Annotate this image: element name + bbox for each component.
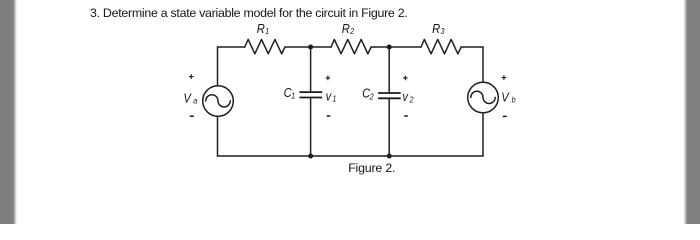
wire C2 branch upper [388, 47, 390, 92]
svg-text:R: R [432, 21, 440, 36]
label C1 [284, 85, 296, 100]
capacitor C2 plates [378, 93, 401, 98]
svg-text:R: R [257, 21, 265, 36]
wire top-left segment [218, 46, 245, 48]
label Vb [501, 90, 516, 105]
resistor R3 [421, 39, 461, 53]
plus sign of v2 [403, 76, 408, 81]
svg-text:3. Determine a state variable: 3. Determine a state variable model for … [90, 6, 407, 20]
svg-text:V: V [183, 91, 192, 106]
resistor R2 [331, 39, 371, 53]
svg-text:v: v [402, 89, 408, 104]
resistor R1 [245, 39, 285, 53]
wire right vertical lower [482, 113, 484, 156]
label v1 [326, 89, 337, 104]
sine wave of Va [206, 95, 230, 107]
junction node bottom C2 [387, 154, 392, 159]
svg-text:1: 1 [265, 26, 269, 36]
svg-text:1: 1 [291, 91, 295, 101]
svg-text:2: 2 [349, 26, 355, 36]
plus sign of Vb [502, 75, 507, 80]
label R2 [342, 21, 355, 36]
svg-text:V: V [501, 90, 510, 105]
plus sign of Va [189, 74, 194, 79]
junction node top C1 [308, 45, 313, 50]
minus sign of Va [190, 115, 194, 117]
wire R3 to top-right corner [461, 46, 483, 48]
wire C1 branch lower [310, 98, 312, 156]
svg-text:3: 3 [441, 26, 446, 36]
wire C1 branch upper [310, 47, 312, 91]
wire R1 to node 1 [285, 46, 331, 48]
voltage source Va [203, 86, 234, 117]
svg-text:Figure 2.: Figure 2. [348, 161, 395, 175]
wire C2 branch lower [388, 99, 390, 156]
wire left vertical lower [217, 116, 219, 156]
svg-text:b: b [512, 95, 517, 105]
svg-text:1: 1 [332, 94, 336, 104]
svg-text:2: 2 [369, 92, 375, 102]
junction node top C2 [387, 45, 392, 50]
plus sign of v1 [326, 76, 331, 81]
svg-text:v: v [326, 89, 332, 104]
minus sign of Vb [503, 115, 507, 117]
wire right vertical upper [482, 47, 484, 82]
caption Figure 2. [348, 161, 395, 175]
wire left vertical upper [217, 47, 219, 86]
label v2 [402, 89, 414, 105]
label R3 [432, 21, 445, 36]
svg-text:R: R [342, 21, 350, 36]
minus sign of v2 [404, 115, 408, 117]
label C2 [362, 86, 374, 102]
label R1 [257, 21, 269, 36]
capacitor C1 plates [299, 92, 322, 97]
svg-text:a: a [193, 96, 198, 106]
voltage source Vb [468, 82, 499, 113]
wire bottom [218, 155, 484, 157]
svg-text:2: 2 [409, 95, 415, 105]
label Va [183, 91, 197, 106]
junction node bottom C1 [308, 154, 313, 159]
sine wave of Vb [471, 91, 495, 103]
problem title text [90, 6, 407, 20]
minus sign of v1 [327, 115, 331, 117]
wire R2 to node 2 [371, 46, 421, 48]
left gray scan edge [0, 0, 20, 224]
right gray scan edge [680, 0, 700, 224]
